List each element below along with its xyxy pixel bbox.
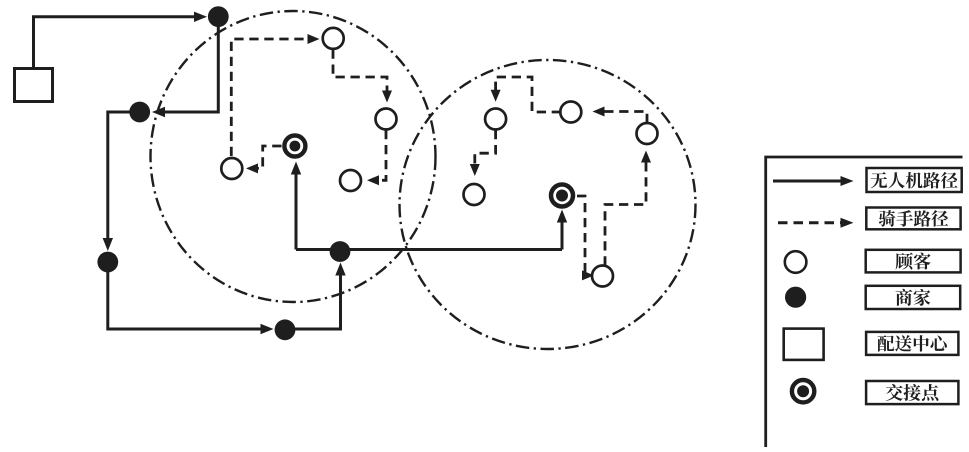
wire: drone path up to handover H2 <box>557 210 567 250</box>
legend: distribution centre square sample <box>784 329 824 360</box>
customer C3 (open circle) <box>340 170 361 191</box>
wire: rider path C1 to C2 <box>333 50 392 103</box>
wire: drone path M4 to M5 <box>285 263 346 330</box>
wire: drone path up to handover H1 <box>291 162 301 250</box>
merchant M4 (filled circle) <box>275 319 296 340</box>
customer C1 (open circle) <box>323 28 344 49</box>
wire: drone path M3 to M4 <box>108 272 274 335</box>
wire: rider path H1 to C4 <box>246 146 282 173</box>
legend: handover point double circle sample <box>792 380 814 402</box>
wire: drone path depot to M1 <box>34 12 208 69</box>
depot: distribution centre square <box>15 69 53 102</box>
merchant M5 (filled circle) <box>330 241 351 262</box>
handover point H1 (double circle) <box>284 136 305 157</box>
wire: rider path C2 to C3 <box>367 130 386 185</box>
customer C5 (open circle) <box>485 109 506 130</box>
legend label box: 交接点 (handover point) <box>866 381 958 404</box>
handover point H2 (double circle) <box>551 185 573 207</box>
merchant M3 (filled circle) <box>97 252 118 273</box>
merchant M2 (filled circle) <box>129 102 150 123</box>
legend label box: 配送中心 (distribution centre) <box>866 332 958 355</box>
legend label box: 商家 (merchant) <box>866 286 961 309</box>
legend outer box (top and left edges) <box>766 157 963 447</box>
legend label box: 无人机路径 (drone path) <box>867 168 962 192</box>
wire: rider path C9 to C7 <box>605 151 651 266</box>
wire: drone horizontal line through M5 <box>296 248 562 251</box>
wire: rider path C4 to C1 <box>231 34 319 156</box>
wire: drone path M1 to M2 <box>152 27 218 118</box>
wire: drone path M2 to M3 <box>103 112 140 251</box>
customer C7 (open circle) <box>637 123 658 144</box>
wire: rider path C6 to C5 <box>491 77 561 112</box>
customer C4 (open circle) <box>221 158 242 179</box>
customer C9 (open circle) <box>592 266 613 287</box>
legend: rider path dashed arrow sample <box>778 218 854 228</box>
legend: drone path solid arrow sample <box>773 176 854 186</box>
wire: rider path H2 to C9 <box>577 196 594 280</box>
legend label box: 骑手路径 (rider path) <box>866 208 960 230</box>
customer C6 (open circle) <box>560 102 581 123</box>
legend: customer open circle sample <box>785 251 807 273</box>
merchant M1 (filled circle) <box>208 6 229 27</box>
wire: rider path C5 to C8 <box>470 130 496 176</box>
wire: rider path C7 to C6 <box>593 107 648 124</box>
customer C8 (open circle) <box>464 184 485 205</box>
left service-area dash-dot circle <box>151 11 436 302</box>
legend label box: 顾客 (customer) <box>866 250 961 273</box>
legend: merchant filled circle sample <box>785 287 806 308</box>
right service-area dash-dot circle <box>400 60 696 349</box>
customer C2 (open circle) <box>376 109 397 130</box>
